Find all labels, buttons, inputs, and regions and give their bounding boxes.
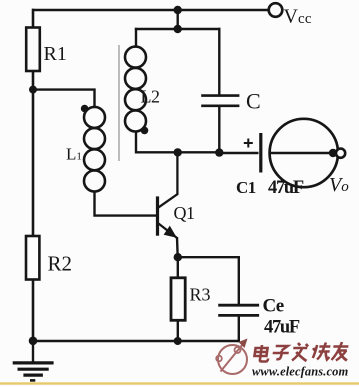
svg-text:L1: L1 [66, 145, 82, 164]
node D junction dot (collector tap) [174, 148, 182, 156]
transistor Q1 emitter [158, 223, 176, 237]
watermark text fa [291, 343, 309, 361]
watermark logo arrowhead [239, 339, 248, 349]
wire tank top to capacitor C [218, 28, 220, 95]
svg-text:R1: R1 [44, 43, 67, 65]
wire R2 to ground node [32, 280, 35, 342]
node G junction dot [29, 337, 38, 346]
svg-text:47uF: 47uF [268, 178, 304, 198]
decorative yellow line [0, 382, 359, 384]
wire Ce to bottom rail [238, 315, 240, 342]
svg-text:R3: R3 [190, 285, 211, 305]
svg-text:Ce: Ce [263, 296, 284, 317]
inductor L1 polarity dot [81, 105, 89, 113]
wire output node to C1 [219, 152, 258, 154]
svg-text:R2: R2 [48, 252, 73, 276]
wire emitter to node F [176, 237, 179, 257]
wire node A to L1 top [33, 90, 95, 108]
node A junction dot [29, 86, 37, 94]
svg-text:Vcc: Vcc [284, 6, 312, 28]
wire L1 bottom to Q1 base [95, 192, 157, 216]
wire inside output circle [271, 152, 334, 155]
node E junction dot (output tap) [215, 148, 223, 156]
watermark text shao [312, 343, 332, 360]
svg-text:Vo: Vo [329, 174, 349, 196]
transistor Q1 base bar [156, 196, 159, 235]
wire L2 bottom to tank bottom rail [136, 132, 221, 153]
capacitor C [201, 96, 239, 106]
node H junction dot [174, 337, 182, 345]
wire tank top rail [135, 28, 221, 30]
watermark text you [331, 342, 349, 361]
terminal Vo small circle [336, 149, 345, 158]
svg-text:L2: L2 [141, 87, 160, 107]
inductor L1 [84, 107, 105, 192]
wire capacitor C to tank bottom rail [218, 107, 220, 154]
wire R3 to bottom rail [177, 320, 179, 341]
ground [13, 341, 54, 380]
node F junction dot (emitter node) [174, 253, 182, 261]
capacitor Ce [218, 305, 259, 315]
wire node F to R3 [177, 257, 179, 278]
node C junction dot on tank top rail [174, 25, 182, 33]
wire top rail Vcc [32, 9, 268, 12]
wire bottom rail [33, 340, 239, 342]
svg-text:www.elecfans.com: www.elecfans.com [252, 365, 348, 379]
svg-text:47uF: 47uF [264, 318, 300, 338]
junction dot at circle edge [329, 149, 337, 157]
watermark text zi [272, 346, 290, 359]
wire top rail to tank rail [176, 10, 178, 29]
capacitor C1 plus sign [244, 139, 253, 148]
inductor L2 polarity dot [141, 127, 149, 135]
wire node F to Ce [178, 257, 239, 305]
resistor R2 [26, 236, 39, 280]
watermark logo circle [216, 342, 247, 375]
output transducer circle Vo [270, 119, 338, 187]
wire R1 to node A [32, 71, 35, 236]
capacitor C1 plate [259, 133, 262, 173]
watermark text dian [254, 345, 270, 362]
wire tank top to L2 [135, 28, 137, 47]
resistor R1 [26, 28, 40, 72]
transformer core line [118, 45, 120, 161]
resistor R3 [171, 278, 185, 321]
svg-text:C1: C1 [236, 178, 256, 197]
wire left rail upper [32, 9, 35, 28]
wire collector [158, 152, 177, 207]
inductor L2 [125, 47, 146, 132]
node B junction dot on top rail [174, 6, 182, 14]
svg-text:Q1: Q1 [174, 203, 195, 223]
terminal Vcc circle [269, 3, 283, 17]
svg-text:C: C [246, 89, 261, 114]
transistor Q1 emitter arrowhead [164, 226, 177, 238]
